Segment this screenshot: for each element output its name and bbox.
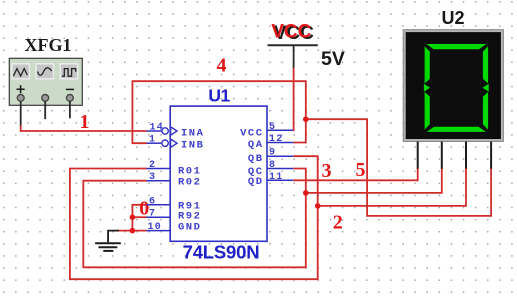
- svg-text:1: 1: [80, 111, 90, 133]
- pin 12 QA: [248, 134, 293, 151]
- display U2 segment A: [426, 44, 486, 49]
- wire net 4 : INB stub to top rail: [132, 81, 305, 143]
- display U2 body: [403, 30, 503, 142]
- pin 11 QD: [248, 172, 293, 188]
- svg-text:XFG1: XFG1: [25, 35, 72, 55]
- svg-text:U2: U2: [441, 8, 464, 28]
- pin 14 INA (clock input): [147, 123, 205, 140]
- svg-text:3: 3: [322, 160, 332, 182]
- pin 5 VCC: [240, 122, 293, 140]
- svg-text:R01: R01: [178, 166, 201, 178]
- svg-text:7: 7: [149, 209, 156, 220]
- wire VCC to pin 5: [292, 68, 294, 130]
- wire net 1 : XFG1+ to INA: [21, 125, 147, 131]
- svg-text:0: 0: [139, 198, 149, 220]
- svg-text:11: 11: [269, 172, 283, 183]
- svg-text:74LS90N: 74LS90N: [183, 241, 260, 262]
- display U2 pins: [418, 142, 491, 169]
- pin 10 GND: [147, 221, 202, 233]
- svg-text:6: 6: [149, 196, 156, 207]
- svg-text:1: 1: [149, 135, 156, 146]
- svg-text:QD: QD: [248, 176, 264, 188]
- pin 6 R91: [147, 196, 202, 212]
- svg-text:R02: R02: [178, 177, 201, 189]
- svg-text:14: 14: [150, 123, 164, 134]
- svg-text:QA: QA: [248, 139, 264, 151]
- junction on net 4: [303, 116, 309, 122]
- svg-text:INB: INB: [181, 140, 204, 152]
- XFG1 pin leads: [21, 101, 70, 126]
- display U2 segment E: [425, 92, 430, 130]
- pin 8 QC: [248, 160, 293, 178]
- wire net : QD to U2 pin D: [293, 168, 418, 181]
- wire net 4 branch to U2 pin D4 (staircase): [306, 119, 491, 216]
- junction QC net: [303, 190, 309, 196]
- svg-text:3: 3: [149, 172, 156, 183]
- svg-text:8: 8: [269, 160, 276, 171]
- ground symbol: [95, 231, 121, 251]
- svg-text:5V: 5V: [321, 48, 345, 70]
- pin 3 R02: [147, 172, 202, 189]
- display U2 segment F: [425, 46, 430, 83]
- svg-text:QB: QB: [248, 153, 264, 165]
- junction net 3: [315, 203, 321, 209]
- wire net 3 : QB to R01 and U2 pin B: [70, 156, 318, 279]
- svg-text:GND: GND: [178, 221, 201, 233]
- display U2 segment D: [427, 127, 486, 132]
- svg-text:VCC: VCC: [240, 128, 263, 140]
- svg-text:5: 5: [269, 122, 276, 133]
- IC U1 74LS90N body: [170, 106, 267, 241]
- wire net 3 branch to U2: [318, 168, 466, 206]
- svg-text:4: 4: [217, 54, 227, 76]
- svg-text:12: 12: [269, 134, 283, 145]
- wire net : QC to R02 and U2 pin C: [83, 169, 305, 268]
- svg-text:U1: U1: [208, 86, 230, 106]
- junctions net 0: [130, 214, 136, 220]
- pin 2 R01: [147, 160, 202, 178]
- pin 7 R92: [147, 209, 202, 223]
- power symbol VCC: [268, 21, 318, 69]
- svg-text:INA: INA: [181, 128, 204, 140]
- wire branch QC to U2: [306, 168, 442, 193]
- display U2 segment F tip: [424, 84, 430, 92]
- svg-text:VCC: VCC: [271, 21, 311, 42]
- display U2 segment B: [483, 46, 488, 83]
- pin 1 INB (clock input): [147, 135, 205, 152]
- svg-text:2: 2: [333, 211, 343, 233]
- svg-text:10: 10: [148, 222, 162, 233]
- svg-text:5: 5: [356, 159, 366, 181]
- function generator XFG1 body: [9, 58, 82, 105]
- pin 9 QB: [248, 148, 293, 165]
- display U2 segment C tip: [482, 84, 488, 92]
- display U2 segment C: [483, 92, 488, 130]
- svg-text:2: 2: [149, 160, 156, 171]
- svg-text:9: 9: [269, 148, 276, 159]
- wire net 0 : ground to R91 R92 GND: [117, 205, 147, 231]
